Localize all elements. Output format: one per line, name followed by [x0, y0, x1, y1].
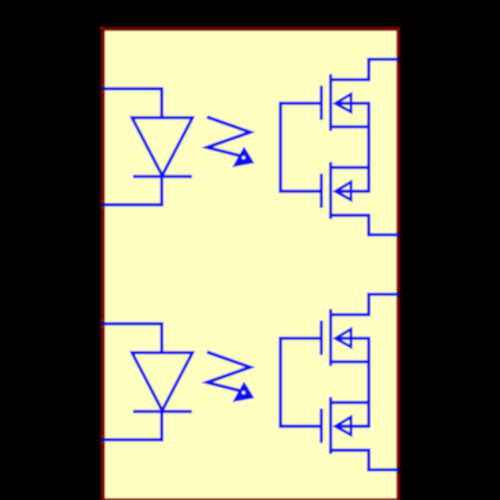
- pin 2 endpoint gap in border: [101, 201, 103, 208]
- light emission arrowhead hole: [242, 391, 245, 394]
- wire: Q3 source lead: [331, 360, 369, 363]
- wire: Q3 body lead: [336, 337, 369, 340]
- transistor Q3 channel bar: [329, 309, 332, 366]
- transistor Q3 body arrow: [336, 329, 352, 347]
- light emission arrowhead hole: [242, 156, 245, 159]
- wire: gate bus connecting Q3,Q4 gates: [279, 337, 282, 428]
- transistor Q2 channel bar: [329, 162, 332, 219]
- transistor Q1 channel bar: [329, 74, 332, 131]
- light emission zigzag arrow from D2: [207, 352, 250, 392]
- wire: pin 5 anode lead of D2: [103, 324, 162, 353]
- wire: gate bus connecting Q1,Q2 gates: [279, 102, 282, 193]
- transistor Q2 body arrow: [336, 182, 352, 200]
- pin 6 endpoint dots: [101, 435, 103, 437]
- wire: Q2 source to pin 4: [331, 215, 399, 235]
- wire: Q1 source lead: [331, 125, 369, 128]
- wire: common node bus Q1 source / Q2 drain: [367, 102, 370, 193]
- wire: Q1 gate lead: [279, 102, 321, 105]
- light emission arrowhead: [235, 150, 251, 165]
- wire: pin 6 cathode lead of D2: [103, 409, 162, 440]
- pin 5 endpoint dots: [101, 319, 103, 321]
- wire: Q1 body lead: [336, 102, 369, 105]
- pin 6 endpoint gap in border: [101, 436, 103, 443]
- wire: Q2 body lead: [336, 190, 369, 193]
- pin 7 endpoint gap in border: [398, 291, 401, 298]
- wire: Q4 source to pin 8: [331, 450, 399, 470]
- wire: Q4 body lead: [336, 425, 369, 428]
- wire: common node bus Q3 source / Q4 drain: [367, 337, 370, 428]
- wire: pin 2 cathode lead of D1: [103, 174, 162, 205]
- transistor Q4 gate bar: [320, 409, 323, 444]
- component body: relay package outline: [103, 29, 398, 500]
- transistor Q1 body arrow: [336, 94, 352, 112]
- LED D1 triangle (anode): [132, 118, 193, 176]
- wire: Q4 drain lead: [331, 401, 369, 404]
- wire: Q2 drain lead: [331, 166, 369, 169]
- transistor Q4 channel bar: [329, 397, 332, 454]
- LED D2 triangle (anode): [132, 353, 193, 411]
- pin 4 endpoint gap in border: [398, 232, 401, 239]
- pin 2 endpoint dots: [101, 200, 103, 202]
- transistor Q1 gate bar: [320, 86, 323, 120]
- light emission zigzag arrow from D1: [207, 117, 250, 157]
- pin 8 endpoint gap in border: [398, 467, 401, 474]
- pin 1 endpoint gap in border: [101, 85, 103, 92]
- LED D2 cathode bar: [133, 410, 192, 413]
- wire: Q3 drain to pin 7: [331, 294, 399, 314]
- wire: Q2 gate lead: [279, 190, 321, 193]
- wire: pin 1 anode lead of D1: [103, 89, 162, 118]
- wire: Q3 gate lead: [279, 337, 321, 340]
- wire: Q4 gate lead: [279, 425, 321, 428]
- transistor Q4 body arrow: [336, 417, 352, 435]
- transistor Q2 gate bar: [320, 174, 323, 209]
- pin 5 endpoint gap in border: [101, 320, 103, 327]
- pin 1 endpoint dots: [101, 84, 103, 86]
- wire: Q1 drain to pin 3: [331, 59, 399, 79]
- light emission arrowhead: [235, 385, 251, 400]
- pin 3 endpoint gap in border: [398, 56, 401, 63]
- origin marker (red dot, top-left corner): [101, 27, 103, 29]
- transistor Q3 gate bar: [320, 321, 323, 355]
- LED D1 cathode bar: [133, 175, 192, 178]
